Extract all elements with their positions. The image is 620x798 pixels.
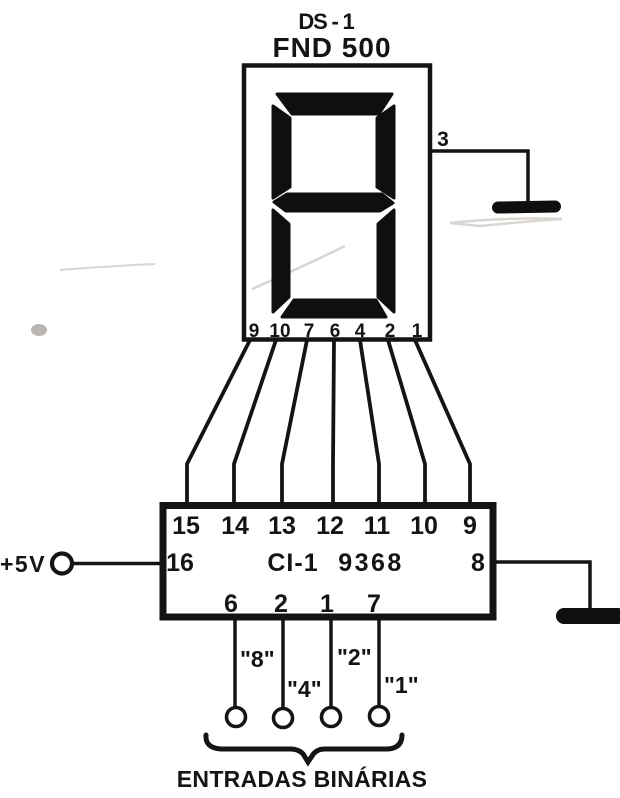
brace under input terminals <box>206 735 402 762</box>
input terminal circle 2 <box>322 708 341 727</box>
svg-text:15: 15 <box>172 512 200 540</box>
svg-text:"2": "2" <box>337 644 372 670</box>
wire CI pin 2 down <box>281 620 285 709</box>
svg-text:12: 12 <box>316 512 344 540</box>
wire display pin 9 to CI pin 15 <box>187 340 250 505</box>
svg-text:8: 8 <box>471 549 485 577</box>
wire CI pin 7 down <box>377 620 381 707</box>
svg-text:6: 6 <box>330 321 341 342</box>
ground bar (display common) <box>492 200 561 213</box>
svg-text:FND 500: FND 500 <box>272 32 391 63</box>
svg-text:2: 2 <box>385 321 396 342</box>
input terminal circle 4 <box>274 709 293 728</box>
svg-text:6: 6 <box>224 590 238 618</box>
segment g (middle) <box>274 194 393 211</box>
svg-text:2: 2 <box>274 590 288 618</box>
svg-text:"8": "8" <box>240 646 275 672</box>
wire CI pin 1 down <box>329 620 333 708</box>
svg-text:9368: 9368 <box>338 549 404 577</box>
wire display pin 6 to CI pin 12 <box>333 340 334 505</box>
svg-text:9: 9 <box>249 321 260 342</box>
wire +5V to CI pin 16 <box>74 562 161 565</box>
wire pin 3 to ground <box>429 151 528 202</box>
svg-text:ENTRADAS BINÁRIAS: ENTRADAS BINÁRIAS <box>177 765 427 792</box>
svg-text:3: 3 <box>437 128 449 151</box>
svg-text:1: 1 <box>320 590 334 618</box>
IC CI-1 9368 box <box>163 506 493 618</box>
svg-text:11: 11 <box>364 512 391 540</box>
scan smudge inside display window <box>252 246 345 289</box>
svg-text:4: 4 <box>355 321 366 342</box>
segment e (lower left) <box>273 210 289 312</box>
svg-text:"4": "4" <box>287 676 322 702</box>
segment c (lower right) <box>378 210 394 312</box>
svg-text:10: 10 <box>410 512 438 540</box>
display DS-1 outline box <box>244 66 430 340</box>
svg-text:10: 10 <box>269 321 290 342</box>
svg-text:13: 13 <box>268 512 296 540</box>
segment a (top) <box>277 94 392 114</box>
wire CI pin 8 to ground <box>494 562 590 610</box>
svg-text:7: 7 <box>367 590 381 618</box>
+5V terminal circle <box>52 554 72 574</box>
svg-text:7: 7 <box>304 321 315 342</box>
svg-text:1: 1 <box>412 321 423 342</box>
scan smudge streak upper right <box>60 219 562 531</box>
input terminal circle 1 <box>370 707 389 726</box>
segment b (upper right) <box>377 106 394 198</box>
svg-text:16: 16 <box>166 549 194 577</box>
wire display pin 2 to CI pin 10 <box>388 340 425 505</box>
segment d (bottom) <box>282 300 386 317</box>
svg-text:+5V: +5V <box>0 551 46 577</box>
wire CI pin 6 down <box>233 620 237 708</box>
wire display pin 4 to CI pin 11 <box>360 340 379 505</box>
wire display pin 10 to CI pin 14 <box>234 340 276 505</box>
input terminal circle 8 <box>227 708 246 727</box>
segment f (upper left) <box>273 106 290 198</box>
svg-text:CI-1: CI-1 <box>267 549 318 577</box>
scan dot <box>31 324 47 336</box>
svg-text:14: 14 <box>221 512 249 540</box>
svg-text:"1": "1" <box>384 672 419 698</box>
ground bar bottom right <box>556 608 620 624</box>
wire display pin 7 to CI pin 13 <box>282 340 307 505</box>
svg-text:9: 9 <box>463 512 477 540</box>
wire display pin 1 to CI pin 9 <box>415 340 470 505</box>
svg-text:DS - 1: DS - 1 <box>298 9 354 34</box>
